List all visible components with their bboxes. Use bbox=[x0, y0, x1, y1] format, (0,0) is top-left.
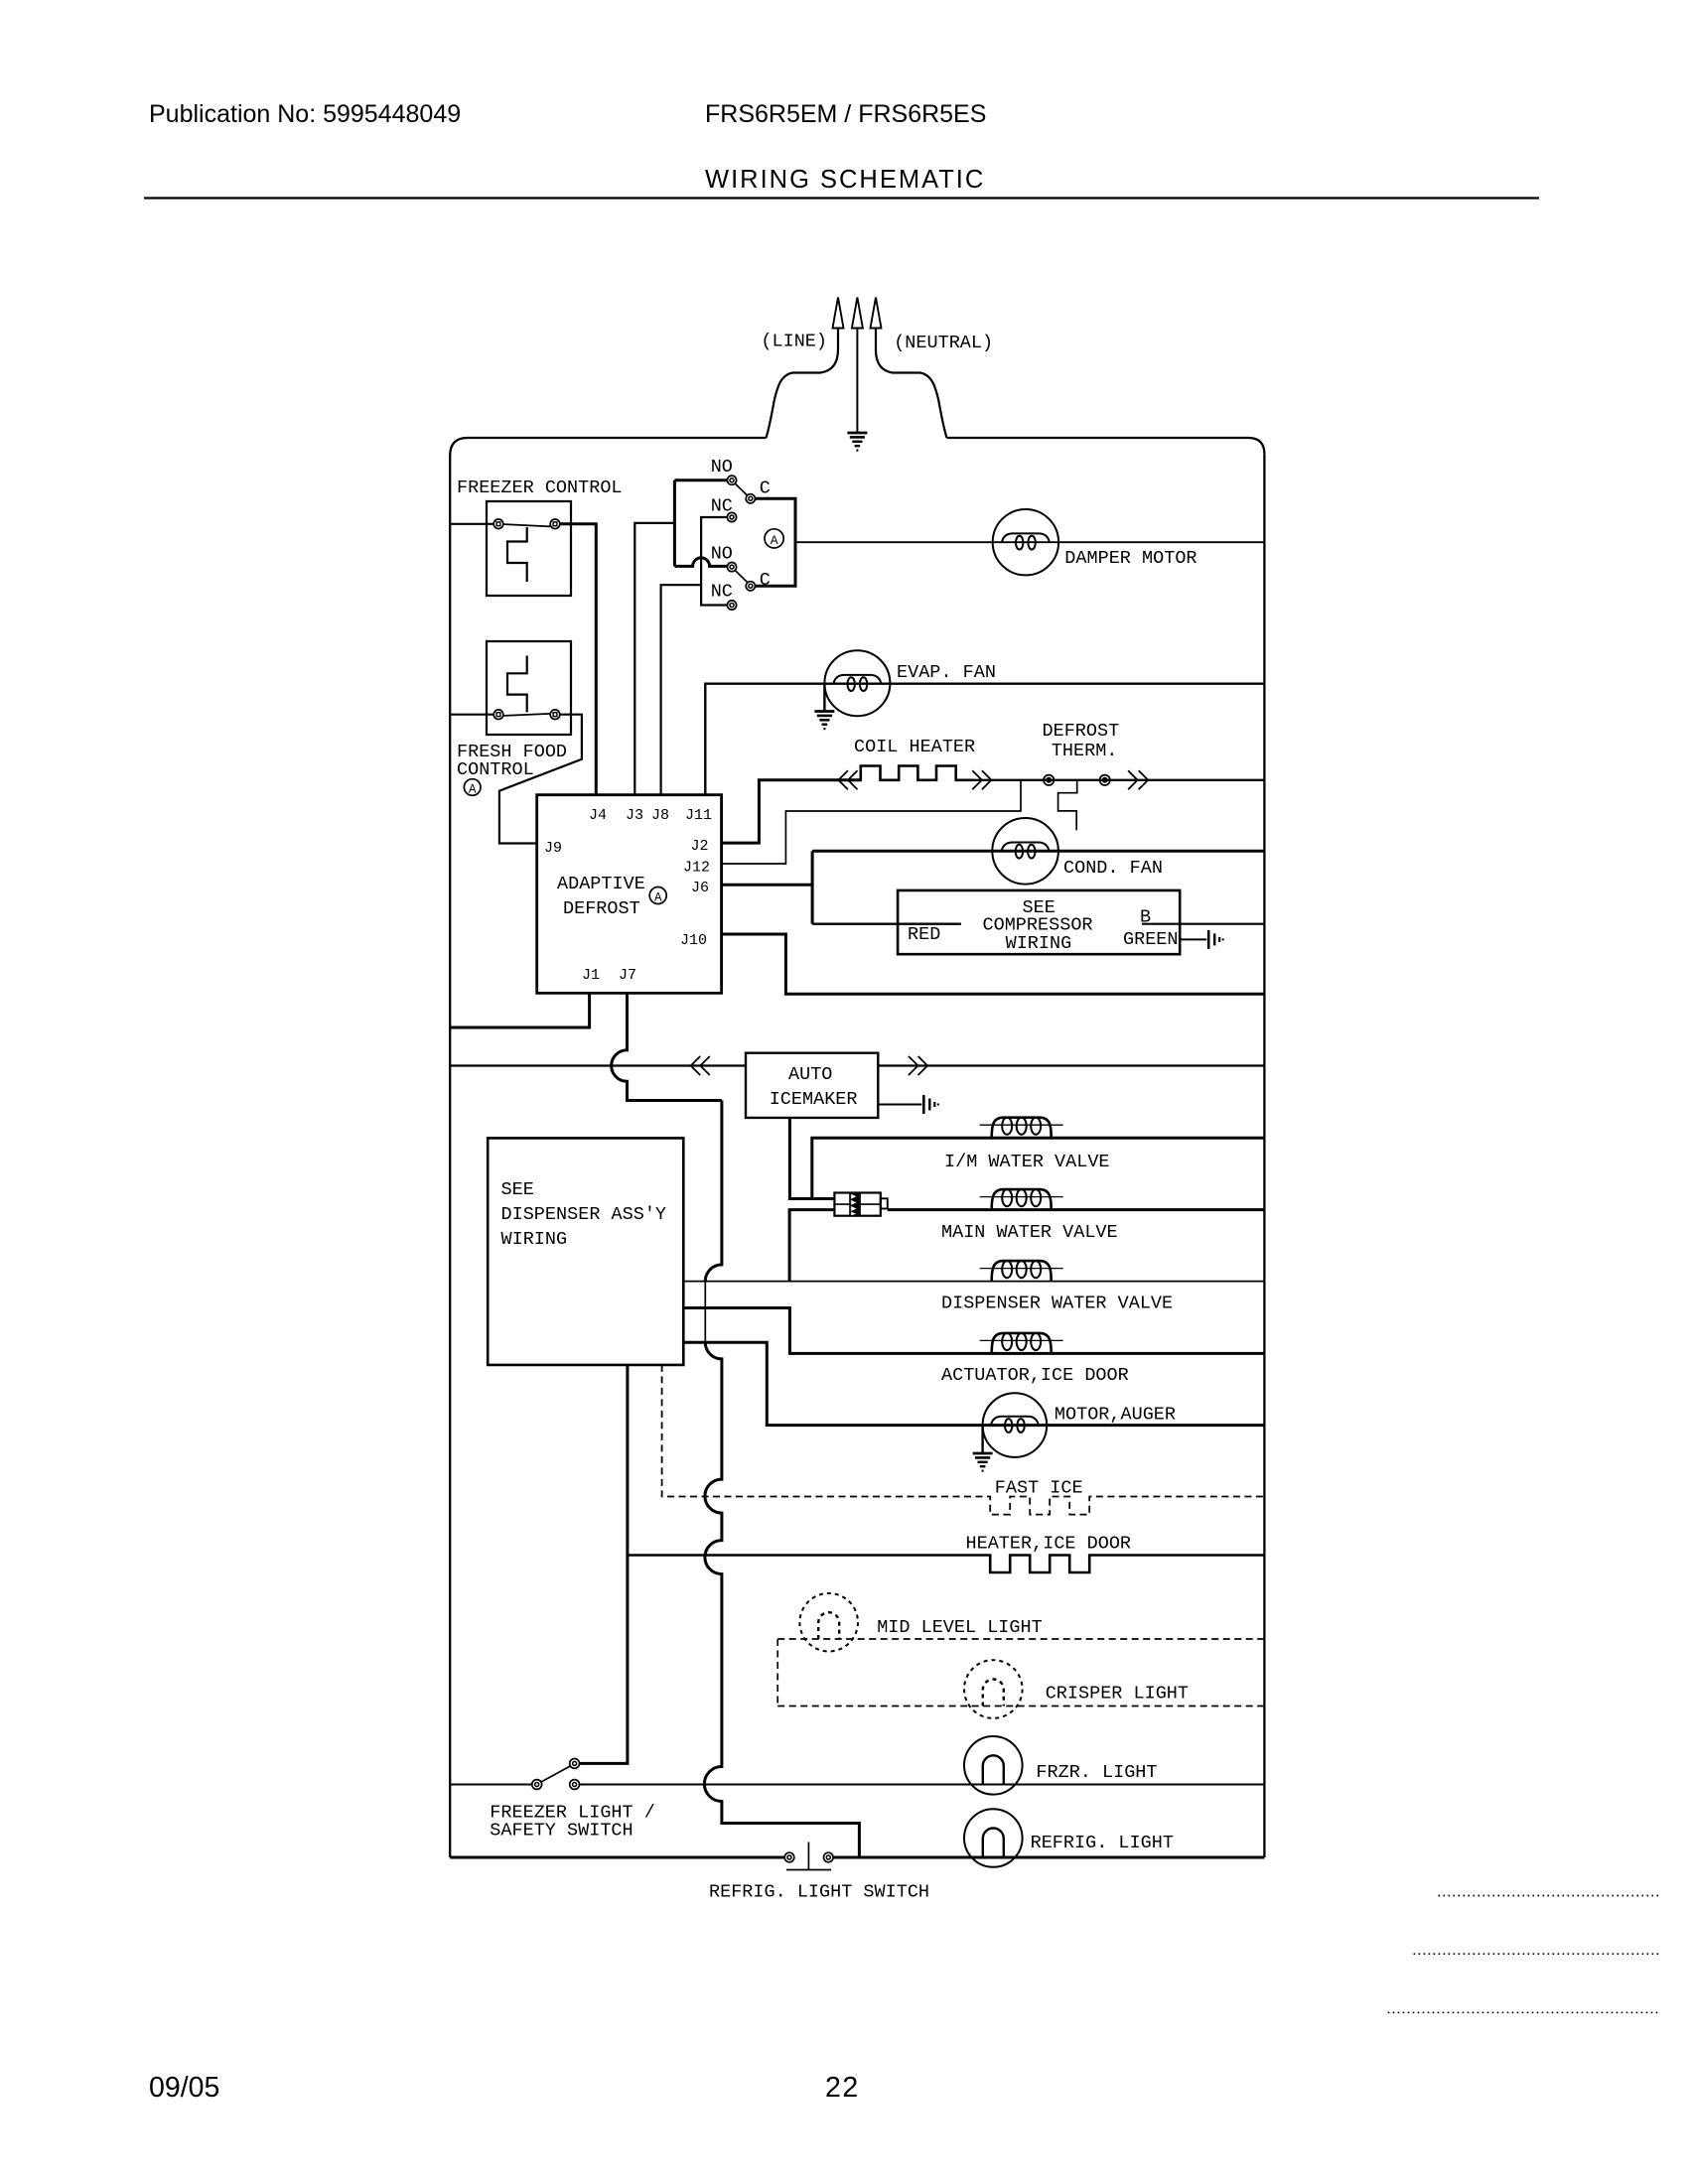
auto icemaker box bbox=[746, 1053, 878, 1118]
relay terminal C lower bbox=[746, 582, 755, 591]
connector chevrons coil heater right bbox=[972, 770, 982, 789]
wire J7 trunk upper bbox=[705, 1101, 722, 1282]
cond fan winding bbox=[1002, 843, 1050, 852]
svg-text:J7: J7 bbox=[619, 967, 636, 984]
svg-text:GREEN: GREEN bbox=[1123, 929, 1179, 950]
relay blade lower bbox=[735, 571, 747, 583]
wire motor auger feed bbox=[683, 1342, 1264, 1425]
svg-text:COIL HEATER: COIL HEATER bbox=[854, 737, 975, 757]
svg-text:REFRIG. LIGHT SWITCH: REFRIG. LIGHT SWITCH bbox=[709, 1882, 929, 1903]
svg-text:C: C bbox=[760, 570, 771, 591]
DISPENSER water valve coil bbox=[992, 1261, 1052, 1282]
svg-text:SEE: SEE bbox=[501, 1179, 534, 1200]
I/M water valve coil bbox=[992, 1118, 1052, 1139]
svg-text:J9: J9 bbox=[544, 840, 562, 857]
wire lower NO feed with hop bbox=[674, 558, 727, 567]
svg-text:22: 22 bbox=[825, 2072, 860, 2104]
plug prong ground bbox=[852, 298, 863, 329]
wire B to rail bbox=[1142, 923, 1264, 925]
freezer control sensing element bbox=[507, 527, 527, 582]
dotted index line 2 bbox=[1414, 1953, 1659, 1955]
ground symbol GREEN chassis bbox=[1180, 938, 1206, 940]
svg-text:A: A bbox=[771, 533, 778, 548]
wire freezer control to J4 bbox=[560, 524, 597, 795]
svg-text:(NEUTRAL): (NEUTRAL) bbox=[894, 333, 993, 353]
svg-text:J10: J10 bbox=[680, 932, 707, 949]
svg-text:DEFROST: DEFROST bbox=[563, 898, 640, 919]
svg-text:NC: NC bbox=[711, 496, 733, 517]
motor auger circle bbox=[983, 1393, 1048, 1457]
see dispenser assy wiring box bbox=[488, 1138, 683, 1365]
switch rail vertical bbox=[673, 480, 676, 567]
relay terminal NC upper bbox=[727, 512, 736, 521]
svg-text:FRS6R5EM / FRS6R5ES: FRS6R5EM / FRS6R5ES bbox=[705, 100, 986, 128]
wire J7 trunk lower with crossovers bbox=[704, 1342, 859, 1857]
wire heater to defrost thermostat bbox=[956, 779, 1265, 781]
svg-text:J8: J8 bbox=[651, 807, 669, 824]
svg-text:NC: NC bbox=[711, 582, 733, 603]
ground symbol at plug bbox=[856, 432, 858, 434]
wire J7 trunk middle jog bbox=[704, 1282, 706, 1343]
ground symbol at motor auger bbox=[981, 1426, 983, 1453]
main enclosure left edge and top-left corner bbox=[450, 438, 766, 1857]
svg-text:J1: J1 bbox=[582, 967, 600, 984]
wire cond fan feed vertical bbox=[811, 851, 814, 923]
relay terminal NC lower bbox=[727, 601, 736, 610]
plug prong LINE bbox=[833, 298, 844, 329]
connector chevrons defrost right bbox=[1128, 770, 1138, 789]
connector chevrons icemaker right bbox=[909, 1056, 918, 1075]
safety switch blade bbox=[541, 1766, 570, 1782]
safety switch terminal left bbox=[532, 1780, 542, 1790]
svg-text:DISPENSER ASS'Y: DISPENSER ASS'Y bbox=[501, 1204, 667, 1225]
svg-text:A: A bbox=[654, 890, 662, 904]
defrost thermostat sensing stub bbox=[1058, 780, 1077, 831]
svg-text:COND. FAN: COND. FAN bbox=[1063, 858, 1163, 879]
circled A fresh food bbox=[464, 779, 481, 796]
ground symbol icemaker chassis bbox=[878, 1104, 921, 1106]
crisper light lamp bbox=[964, 1660, 1023, 1718]
refrig switch plunger bbox=[786, 1843, 831, 1870]
fresh food terminal left bbox=[493, 710, 503, 720]
svg-text:RED: RED bbox=[908, 924, 940, 945]
wire main valve from below bbox=[789, 1210, 834, 1282]
svg-text:NO: NO bbox=[711, 457, 733, 478]
refrig switch terminal left bbox=[784, 1852, 794, 1862]
dotted index line 3 bbox=[1388, 2011, 1659, 2013]
wire icemaker bottom to connector bbox=[789, 1118, 834, 1199]
svg-text:J3: J3 bbox=[626, 807, 643, 824]
main enclosure right edge (neutral rail) bbox=[1263, 454, 1265, 1857]
svg-text:ICEMAKER: ICEMAKER bbox=[770, 1089, 858, 1110]
compressor wiring box bbox=[898, 890, 1180, 954]
fresh food sensing element bbox=[507, 656, 527, 713]
ground symbol at evap fan bbox=[823, 684, 825, 712]
svg-text:J12: J12 bbox=[683, 860, 710, 877]
relay terminal C upper bbox=[746, 494, 755, 503]
freezer control box bbox=[487, 501, 571, 596]
wire J10 to rail bbox=[722, 934, 1265, 994]
svg-text:CRISPER LIGHT: CRISPER LIGHT bbox=[1046, 1684, 1189, 1705]
mid level light lamp bbox=[799, 1593, 858, 1652]
svg-text:C: C bbox=[760, 478, 771, 499]
fresh food control box bbox=[487, 641, 571, 735]
wire LINE riser over enclosure bbox=[767, 329, 839, 439]
wire J8 tap bbox=[661, 585, 702, 795]
main enclosure top edge right of plug and top-right corner bbox=[947, 438, 1265, 454]
svg-text:FAST ICE: FAST ICE bbox=[995, 1478, 1083, 1499]
evap fan winding bbox=[833, 675, 881, 684]
svg-text:REFRIG. LIGHT: REFRIG. LIGHT bbox=[1031, 1833, 1174, 1853]
wire icemaker out bbox=[878, 1064, 1264, 1066]
wire left rail to freezer control bbox=[450, 523, 493, 525]
safety switch terminal upper bbox=[570, 1759, 580, 1769]
wire dispenser water valve bbox=[683, 1281, 1264, 1283]
relay terminal NO upper bbox=[727, 476, 736, 484]
wire dashed riser mid-crisper bbox=[776, 1639, 778, 1706]
wire NEUTRAL riser over enclosure bbox=[876, 329, 947, 439]
freezer control switch blade bbox=[503, 524, 550, 526]
svg-text:Publication No: 5995448049: Publication No: 5995448049 bbox=[149, 100, 461, 128]
damper motor circle bbox=[993, 509, 1058, 575]
refrig light lamp bbox=[964, 1809, 1023, 1867]
fresh food terminal right bbox=[550, 710, 560, 720]
fresh food switch blade bbox=[503, 714, 550, 716]
wire J11 to evap fan to rail bbox=[705, 684, 1264, 795]
safety switch terminal mid bbox=[570, 1780, 580, 1790]
defrost thermostat terminal 1 bbox=[1044, 775, 1054, 785]
wire dispenser box to safety switch bbox=[580, 1365, 628, 1764]
svg-text:SAFETY SWITCH: SAFETY SWITCH bbox=[490, 1821, 633, 1842]
cond fan circle bbox=[992, 818, 1058, 885]
freezer control terminal left bbox=[493, 519, 503, 529]
wire RED to compressor bbox=[812, 923, 961, 925]
svg-text:DISPENSER WATER VALVE: DISPENSER WATER VALVE bbox=[941, 1294, 1173, 1314]
main enclosure bottom edge / refrigerator light net bbox=[450, 1856, 1264, 1859]
wire J3 tap bbox=[634, 523, 674, 795]
damper motor winding bbox=[1002, 533, 1050, 542]
freezer light lamp bbox=[964, 1736, 1023, 1795]
wire fast ice dashed bbox=[662, 1365, 1265, 1515]
connector chevrons coil heater left bbox=[838, 770, 848, 789]
svg-text:MOTOR,AUGER: MOTOR,AUGER bbox=[1055, 1405, 1176, 1426]
wire I/M valve tap bbox=[812, 1138, 1265, 1198]
svg-text:AUTO: AUTO bbox=[788, 1064, 832, 1085]
plug prong NEUTRAL bbox=[871, 298, 882, 329]
svg-text:THERM.: THERM. bbox=[1052, 741, 1118, 761]
MAIN water valve coil bbox=[992, 1189, 1052, 1210]
svg-text:(LINE): (LINE) bbox=[761, 332, 827, 352]
wire NO feed upper bbox=[674, 478, 727, 481]
wire left rail to icemaker bbox=[450, 1064, 746, 1066]
motor auger winding bbox=[991, 1417, 1039, 1426]
wire plug ground stem bbox=[856, 329, 858, 434]
svg-text:FREEZER CONTROL: FREEZER CONTROL bbox=[457, 478, 623, 498]
wire crisper light dashed bbox=[777, 1706, 1264, 1707]
wire J2 riser bbox=[722, 780, 861, 843]
svg-text:MAIN WATER VALVE: MAIN WATER VALVE bbox=[941, 1222, 1118, 1243]
relay terminal NO lower bbox=[727, 563, 736, 572]
svg-text:DEFROST: DEFROST bbox=[1043, 721, 1120, 742]
wire fresh food control to J9 bbox=[499, 715, 582, 844]
wire J12 to coil heater junction bbox=[722, 780, 1021, 864]
connector chevrons icemaker left bbox=[691, 1056, 701, 1075]
circled A relay bbox=[765, 529, 783, 548]
refrig switch terminal right bbox=[824, 1852, 834, 1862]
svg-text:EVAP. FAN: EVAP. FAN bbox=[897, 662, 996, 683]
wire left rail to safety switch bbox=[450, 1784, 532, 1786]
svg-text:MID LEVEL LIGHT: MID LEVEL LIGHT bbox=[877, 1617, 1043, 1638]
relay common bracket bbox=[755, 498, 795, 586]
svg-text:09/05: 09/05 bbox=[149, 2072, 219, 2104]
svg-text:HEATER,ICE DOOR: HEATER,ICE DOOR bbox=[966, 1534, 1132, 1555]
svg-text:A: A bbox=[469, 783, 477, 797]
inline connector block bbox=[834, 1193, 880, 1216]
svg-text:J4: J4 bbox=[589, 807, 607, 824]
svg-text:ADAPTIVE: ADAPTIVE bbox=[557, 874, 645, 894]
svg-text:CONTROL: CONTROL bbox=[457, 759, 534, 780]
svg-text:J6: J6 bbox=[691, 880, 709, 896]
ACTUATOR ice door coil bbox=[992, 1333, 1052, 1354]
wire heater ice door bbox=[628, 1556, 1265, 1573]
wire NC rail bbox=[701, 517, 727, 606]
svg-text:ACTUATOR,ICE DOOR: ACTUATOR,ICE DOOR bbox=[941, 1365, 1129, 1386]
svg-text:I/M WATER VALVE: I/M WATER VALVE bbox=[944, 1152, 1110, 1172]
wire cond fan to rail bbox=[812, 850, 1264, 853]
wire relay to damper motor to rail bbox=[795, 541, 1264, 543]
wire J7 down with hop over icemaker feed bbox=[612, 993, 722, 1100]
relay blade upper bbox=[735, 483, 747, 495]
wire left rail to fresh food control bbox=[450, 714, 493, 716]
svg-text:WIRING SCHEMATIC: WIRING SCHEMATIC bbox=[705, 166, 985, 194]
defrost thermostat terminal 2 bbox=[1100, 775, 1110, 785]
svg-text:WIRING: WIRING bbox=[501, 1229, 568, 1250]
wire mid level light dashed bbox=[777, 1638, 1264, 1640]
svg-text:WIRING: WIRING bbox=[1006, 933, 1072, 954]
coil heater element bbox=[848, 766, 973, 780]
circled A board bbox=[649, 887, 666, 904]
wire main water valve to rail bbox=[888, 1208, 1265, 1211]
wire J1 to left rail bbox=[450, 993, 589, 1027]
svg-text:NO: NO bbox=[711, 544, 733, 565]
svg-text:DAMPER MOTOR: DAMPER MOTOR bbox=[1064, 548, 1196, 569]
dotted index line 1 bbox=[1439, 1895, 1659, 1897]
wire J6 to cond fan junction bbox=[722, 884, 813, 887]
svg-text:J11: J11 bbox=[685, 807, 712, 824]
adaptive defrost board bbox=[537, 795, 722, 994]
wire actuator ice door bbox=[683, 1308, 1264, 1354]
wire safety switch to freezer light bbox=[580, 1784, 1265, 1786]
title underline rule bbox=[144, 197, 1539, 199]
freezer control terminal right bbox=[550, 519, 560, 529]
evap fan circle bbox=[824, 650, 890, 716]
svg-text:FRZR. LIGHT: FRZR. LIGHT bbox=[1036, 1762, 1157, 1783]
svg-text:J2: J2 bbox=[691, 838, 709, 855]
